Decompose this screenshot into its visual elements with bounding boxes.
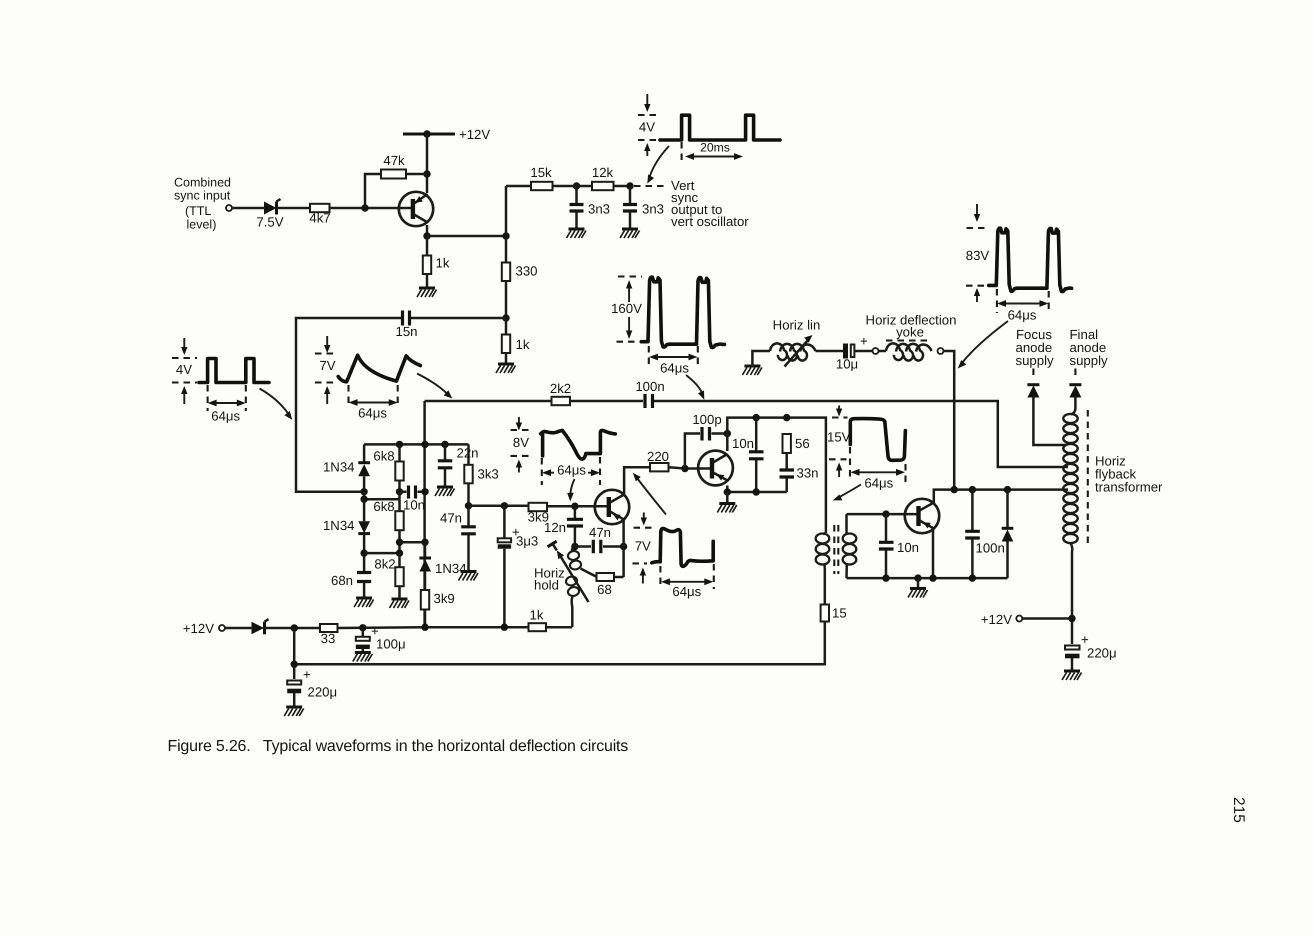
svg-text:160V: 160V	[611, 301, 642, 316]
node rail junction bus	[421, 441, 428, 448]
resistor 6k8 second	[373, 499, 403, 553]
svg-text:6k8: 6k8	[373, 449, 394, 464]
node rail junction 6k8	[396, 441, 403, 448]
waveform 8V trace	[541, 430, 616, 459]
waveform 7V sawtooth dimension	[349, 385, 398, 421]
svg-text:+12V: +12V	[183, 621, 214, 636]
node 3k9 bottom junction	[421, 624, 428, 631]
wire 47k branch	[365, 174, 427, 208]
waveform 160V dimension	[649, 346, 698, 376]
capacitor 68n	[331, 553, 371, 598]
ground 22n	[435, 487, 455, 496]
resistor 68	[597, 573, 624, 597]
node 10n right junction	[421, 488, 428, 495]
waveform 4V left scale arrows	[172, 338, 197, 404]
resistor 6k8 first	[373, 444, 403, 499]
node 3n3 second junction	[626, 182, 633, 189]
wire Q2 emitter	[622, 520, 625, 577]
ground 8k2	[390, 599, 410, 608]
wire emitter ground stub	[726, 492, 729, 504]
waveform 4V left dimension	[208, 385, 246, 424]
wire Q3 emitter rail	[727, 486, 786, 493]
svg-text:20ms: 20ms	[700, 141, 730, 155]
node emitter junction	[423, 232, 430, 239]
label combined sync input	[174, 176, 231, 232]
node yoke right terminal	[938, 348, 944, 354]
wire diode to 4k7	[277, 207, 310, 210]
svg-text:8k2: 8k2	[374, 557, 395, 572]
node 100n top junction	[969, 486, 976, 493]
waveform 83V trace	[989, 228, 1072, 291]
inductor Horiz deflection yoke	[886, 343, 932, 360]
node 10n bottom junction	[753, 488, 760, 495]
dashed core driver	[834, 525, 838, 574]
svg-text:6k8: 6k8	[373, 499, 394, 514]
svg-text:33n: 33n	[797, 466, 819, 481]
node crossbar mid right	[421, 539, 428, 546]
waveform 4V left pulse trace	[199, 359, 269, 383]
diode focus supply	[1027, 369, 1066, 446]
capacitor 220u right	[1065, 632, 1117, 671]
waveform 160V trace	[641, 277, 724, 347]
waveform 7V centre trace	[652, 528, 713, 566]
svg-text:15: 15	[832, 606, 847, 621]
wire 10u to yoke terminal	[855, 350, 872, 353]
resistor 220	[647, 449, 669, 471]
wire to 15k	[506, 185, 531, 188]
label focus anode supply	[1016, 327, 1055, 368]
capacitor 12n	[544, 506, 583, 546]
node 10n left junction	[396, 488, 403, 495]
resistor 3k9 horizontal	[528, 503, 549, 525]
node emitter bottom junction	[929, 574, 936, 581]
waveform 4V 20ms dimension	[682, 141, 743, 164]
svg-text:64μs: 64μs	[211, 409, 240, 424]
node 100n bottom Q4	[969, 574, 976, 581]
node 100p collector junction	[724, 430, 731, 437]
wire 15n line	[296, 318, 506, 492]
node 3k3 bottom junction	[465, 502, 472, 509]
svg-text:4V: 4V	[176, 362, 192, 377]
inductor Horiz lin	[770, 318, 820, 367]
node 8k2 top	[396, 549, 403, 556]
diode 7.5V input	[256, 199, 283, 230]
wire ground to horiz lin	[752, 351, 770, 366]
diode final supply	[1069, 369, 1081, 415]
label horiz flyback transformer	[1095, 454, 1163, 495]
resistor 330	[502, 263, 538, 282]
wire 3k9 to base	[547, 505, 607, 508]
transistor Q4	[905, 499, 939, 533]
wire crossbar mid	[400, 541, 426, 544]
transformer driver primary	[816, 533, 830, 568]
svg-text:Combined: Combined	[174, 176, 231, 190]
label final anode supply	[1070, 327, 1109, 368]
capacitor 100u	[356, 624, 406, 653]
capacitor 10n ladder	[400, 486, 426, 513]
node 100u junction	[359, 624, 366, 631]
ground Q4	[908, 589, 928, 598]
wire driver primary to 15	[824, 568, 827, 605]
capacitor 100p	[685, 412, 727, 469]
node rail junction 22n	[441, 441, 448, 448]
waveform 160V scale	[611, 277, 643, 342]
resistor 15	[821, 605, 847, 622]
resistor 4k7	[309, 204, 330, 226]
svg-text:Horiz lin: Horiz lin	[773, 318, 821, 333]
svg-text:7.5V: 7.5V	[256, 215, 283, 230]
waveform 4V 20ms scale arrows	[638, 94, 658, 156]
ground Q3 emitter	[717, 504, 737, 513]
wire crossbar lower	[364, 552, 399, 555]
wire dashed output	[634, 185, 668, 187]
arrow 4V to output node	[647, 146, 669, 184]
wire 1k stub	[426, 236, 429, 288]
label horiz hold	[534, 566, 565, 593]
wire secondary top to Q4 base	[847, 513, 917, 516]
node 220u left junction	[291, 624, 298, 631]
waveform 15V scale arrows	[827, 406, 851, 478]
waveform 83V dimension	[997, 289, 1049, 323]
wire node to 3u3	[469, 505, 529, 508]
node 15n input junction	[360, 488, 367, 495]
ground Q1 emitter	[417, 288, 437, 297]
waveform 7V centre dimension	[660, 564, 713, 599]
waveform 15V trace	[850, 419, 905, 461]
capacitor 15n	[395, 311, 417, 340]
capacitor 3n3 first	[570, 186, 611, 229]
wire Q4 emitter	[932, 529, 935, 578]
wire 220 to Q3 base	[669, 467, 711, 468]
svg-text:7V: 7V	[635, 539, 651, 554]
svg-text:64μs: 64μs	[864, 476, 893, 491]
svg-text:4V: 4V	[639, 120, 655, 135]
wire 220u drop	[293, 628, 296, 679]
svg-text:3μ3: 3μ3	[516, 534, 538, 549]
diode +12V feed	[252, 619, 269, 634]
wire bus left vertical	[423, 401, 426, 627]
svg-text:sync input: sync input	[174, 189, 231, 203]
label horiz deflection yoke	[866, 313, 957, 341]
waveform 8V scale arrows	[511, 417, 530, 473]
wire Q4 bottom rail	[847, 577, 1008, 580]
node crossbar mid left	[396, 539, 403, 546]
resistor 1k lower	[502, 335, 530, 354]
svg-text:1k: 1k	[530, 608, 544, 623]
svg-text:vert oscillator: vert oscillator	[671, 214, 749, 229]
transistor Q1	[399, 192, 433, 226]
svg-text:10n: 10n	[403, 498, 425, 513]
ground 3n3 second	[620, 229, 640, 238]
resistor 1k Q1	[423, 256, 450, 275]
arrow 7V sawtooth to corner	[417, 374, 452, 399]
svg-text:64μs: 64μs	[358, 406, 387, 421]
node ground stub junction	[914, 574, 921, 581]
wire 15k to 12k	[553, 185, 593, 188]
node rail 10n junction	[753, 414, 760, 421]
svg-text:1k: 1k	[516, 337, 530, 352]
ground 1k lower	[496, 364, 516, 373]
resistor 12k	[592, 165, 614, 190]
resistor 2k2	[550, 381, 571, 405]
resistor 1k bottom	[529, 608, 547, 632]
svg-text:+: +	[303, 667, 311, 682]
node +12V left terminal	[183, 621, 252, 636]
svg-text:12n: 12n	[544, 520, 566, 535]
svg-text:64μs: 64μs	[1008, 308, 1037, 323]
waveform 7V sawtooth scale arrows	[315, 336, 338, 404]
node bottom bus junction	[291, 661, 298, 668]
resistor 15k	[530, 165, 552, 190]
svg-text:220: 220	[647, 449, 669, 464]
arrow 8V to Q2 base	[567, 479, 574, 502]
ground 100u	[353, 653, 373, 662]
ground 47n left	[459, 572, 479, 581]
svg-text:1N34: 1N34	[323, 518, 355, 533]
node 3u3 bottom junction	[501, 624, 508, 631]
svg-text:68n: 68n	[331, 573, 353, 588]
svg-text:2k2: 2k2	[550, 381, 571, 396]
node +12V right junction	[1068, 615, 1075, 622]
diode 1N34 second	[323, 499, 370, 553]
wire 33 to 1k	[338, 626, 529, 629]
capacitor 100n bus	[635, 379, 664, 408]
wire collector to +12V	[426, 134, 429, 193]
svg-text:47n: 47n	[589, 525, 611, 540]
node Q2 base junction	[571, 503, 578, 510]
svg-text:12k: 12k	[592, 165, 614, 180]
capacitor 47n feedback	[575, 525, 624, 553]
wire 15 to bottom bus	[294, 622, 825, 665]
svg-text:64μs: 64μs	[672, 584, 701, 599]
capacitor 10u	[836, 334, 868, 372]
svg-text:56: 56	[795, 436, 810, 451]
svg-text:100n: 100n	[635, 379, 664, 394]
node damper diode top junction	[1004, 486, 1011, 493]
waveform 15V dimension	[850, 447, 906, 491]
svg-text:supply: supply	[1070, 353, 1109, 368]
arrow 83V to yoke wire	[958, 321, 1008, 369]
capacitor 10n Q4	[879, 514, 919, 578]
svg-text:Figure 5.26. Typical wavefor: Figure 5.26. Typical waveforms in the ho…	[168, 738, 629, 755]
svg-text:220μ: 220μ	[1087, 646, 1117, 661]
transistor Q2	[595, 490, 629, 524]
wire Q2 collector	[624, 467, 650, 494]
waveform 7V centre scale arrows	[633, 513, 655, 584]
wire Q3 collector rail	[727, 418, 826, 533]
svg-text:15k: 15k	[530, 165, 552, 180]
capacitor 100n Q4	[965, 490, 1005, 578]
svg-text:hold: hold	[534, 578, 559, 593]
node Q3 base junction	[681, 465, 688, 472]
ground 68n	[354, 598, 374, 607]
svg-text:supply: supply	[1016, 353, 1055, 368]
node +12V rail top	[403, 127, 490, 142]
wire Q4 collector rail	[934, 490, 1068, 503]
svg-text:10μ: 10μ	[836, 357, 858, 372]
transformer horiz flyback winding	[1063, 414, 1077, 560]
svg-text:7V: 7V	[319, 358, 335, 373]
arrow 15V to transformer	[833, 485, 861, 501]
dashed core flyback	[1087, 410, 1089, 544]
node 330 top junction	[502, 232, 509, 239]
wire yoke to flyback junction	[944, 351, 955, 490]
wire crossbar upper	[364, 492, 399, 499]
inductor Horiz hold	[548, 541, 597, 627]
node crossbar 6k8 junction	[360, 496, 367, 503]
arrow 160V to bus wire	[686, 375, 704, 400]
wire flyback bottom to +12V node	[1071, 560, 1074, 644]
svg-text:47k: 47k	[383, 153, 405, 168]
svg-text:+12V: +12V	[459, 127, 490, 142]
node input terminal	[226, 205, 232, 211]
node +12V right terminal	[981, 612, 1072, 627]
wire input	[232, 207, 265, 210]
node base junction	[361, 204, 368, 211]
arrow 7V to Q2 collector corner	[633, 473, 666, 515]
capacitor 33n	[780, 466, 819, 493]
svg-text:level): level)	[187, 218, 217, 232]
resistor 3k9 vertical	[421, 590, 455, 627]
svg-text:+: +	[860, 334, 868, 349]
svg-text:1N34: 1N34	[323, 460, 355, 475]
svg-text:8V: 8V	[513, 435, 529, 450]
diode damper	[1002, 490, 1014, 578]
node 3u3 junction	[501, 502, 508, 509]
resistor 3k3	[464, 444, 498, 505]
svg-text:15V: 15V	[827, 430, 851, 445]
capacitor 3u3	[498, 506, 539, 627]
capacitor 3n3 second	[623, 186, 664, 229]
capacitor 47n left	[440, 506, 476, 572]
resistor 47k	[381, 153, 406, 179]
ground horiz lin	[742, 366, 762, 375]
wire emitter down	[426, 225, 429, 236]
waveform 4V 20ms pulse trace	[660, 115, 780, 140]
wire diode to node	[265, 627, 320, 630]
wire ground stub Q4	[917, 578, 920, 588]
waveform 7V sawtooth trace	[338, 355, 420, 382]
wire 506 vertical	[505, 186, 508, 318]
wire 4k7 to base	[330, 207, 412, 210]
svg-text:transformer: transformer	[1095, 480, 1163, 495]
diode 1N34 third	[419, 542, 466, 590]
svg-text:10n: 10n	[732, 436, 754, 451]
node 10n bottom Q4	[882, 574, 889, 581]
capacitor 22n	[438, 444, 479, 487]
svg-text:33: 33	[321, 631, 336, 646]
node 47n emitter junction	[620, 543, 627, 550]
arrow 4V left to wire	[260, 389, 293, 420]
transformer driver secondary	[843, 514, 857, 578]
svg-text:+12V: +12V	[981, 612, 1012, 627]
resistor 8k2	[374, 553, 403, 599]
svg-text:215: 215	[1230, 797, 1247, 823]
resistor 33	[320, 624, 338, 646]
wire 12k to output	[614, 185, 633, 188]
node rail 56 junction	[783, 414, 790, 421]
wire 1k lower stub	[505, 318, 508, 364]
svg-text:220μ: 220μ	[308, 685, 338, 700]
node 47k junction	[423, 170, 430, 177]
node 3n3 first junction	[573, 182, 580, 189]
node 10n Q4 top junction	[882, 510, 889, 517]
waveform 8V dimension	[542, 457, 600, 485]
svg-text:64μs: 64μs	[660, 361, 689, 376]
svg-text:64μs: 64μs	[557, 463, 586, 478]
svg-text:10n: 10n	[897, 540, 919, 555]
svg-text:100n: 100n	[976, 541, 1005, 556]
svg-text:83V: 83V	[966, 248, 990, 263]
svg-text:4k7: 4k7	[309, 211, 330, 226]
node yoke left terminal	[873, 348, 879, 354]
svg-text:100p: 100p	[692, 412, 721, 427]
wire 1k to horiz hold	[546, 626, 572, 629]
svg-text:3n3: 3n3	[642, 202, 664, 217]
ground 220u left	[284, 707, 304, 716]
transistor Q3	[698, 451, 733, 486]
wire emitter to 330 branch	[427, 235, 506, 238]
svg-text:(TTL: (TTL	[185, 204, 211, 218]
svg-text:15n: 15n	[395, 324, 417, 339]
node 68n junction	[360, 549, 367, 556]
capacitor 220u left	[287, 667, 337, 707]
ground 220u right	[1062, 671, 1082, 680]
waveform 83V scale arrows	[966, 204, 990, 302]
svg-text:3k3: 3k3	[478, 467, 499, 482]
svg-text:3k9: 3k9	[434, 591, 455, 606]
wire terminal to yoke	[879, 350, 887, 353]
wire top bus	[425, 401, 1068, 467]
svg-text:1k: 1k	[436, 256, 450, 271]
svg-text:100μ: 100μ	[376, 637, 406, 652]
svg-text:3n3: 3n3	[588, 202, 610, 217]
label vert sync output	[671, 178, 749, 229]
wire horiz lin to 10u	[816, 350, 844, 353]
ground 3n3 first	[567, 229, 587, 238]
diode 1N34 first	[323, 444, 370, 491]
node emitter ground junction	[724, 488, 731, 495]
svg-text:68: 68	[597, 582, 612, 597]
wire ladder rail	[364, 443, 468, 446]
svg-text:330: 330	[516, 264, 538, 279]
resistor 56	[783, 434, 810, 469]
node yoke return junction	[951, 486, 958, 493]
svg-text:yoke: yoke	[896, 325, 924, 340]
svg-text:47n: 47n	[440, 511, 462, 526]
node 15n junction	[502, 314, 509, 321]
capacitor 10n Q3	[732, 418, 764, 492]
node 12n bottom junction	[571, 543, 578, 550]
